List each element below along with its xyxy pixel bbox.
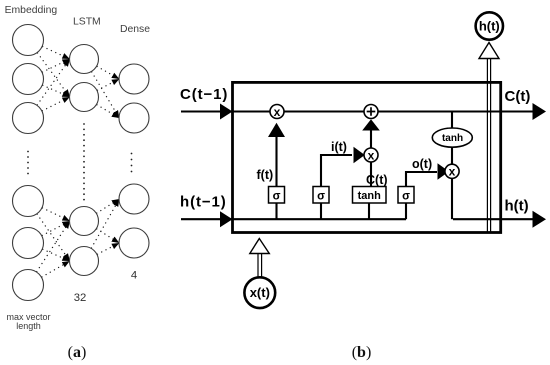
wire embedding1-lstm2: [38, 53, 70, 97]
svg-text:f(t): f(t): [257, 168, 274, 182]
arrowhead h(t-1) into box: [220, 211, 233, 227]
wire x(t) double line up: [258, 253, 262, 278]
column label Embedding: [5, 5, 58, 16]
open arrow to h(t) node: [479, 43, 499, 59]
node h(t) top: [476, 12, 503, 39]
wire embedding1-lstm1: [43, 47, 70, 59]
wire embedding2-lstm2: [43, 85, 70, 97]
svg-text:x(t): x(t): [250, 285, 270, 300]
neuron LSTM 1: [70, 45, 99, 74]
wire lstm4-dense4: [97, 243, 119, 254]
wire multiply2 up to add node: [370, 130, 372, 148]
label max vector length: [6, 312, 50, 331]
svg-text:tanh: tanh: [358, 190, 382, 202]
wire tanh box up to multiply2: [370, 162, 372, 186]
multiply node on C line (forget): [270, 105, 284, 119]
sigma box 1 (forget gate): [269, 187, 285, 204]
column label LSTM: [73, 17, 101, 28]
neuron LSTM 2: [70, 83, 99, 112]
label 4 (dense units): [131, 270, 137, 282]
node x(t) input: [244, 277, 275, 308]
svg-text:tanh: tanh: [442, 133, 463, 144]
svg-text:(b): (b): [352, 344, 372, 361]
wire embedding6-lstm4: [42, 261, 70, 277]
arrowhead C(t) output: [533, 103, 547, 120]
wire sigma1 up to multiply node: [275, 135, 277, 186]
svg-text:h(t): h(t): [505, 198, 529, 215]
wire sigma2 down to h line: [320, 203, 322, 219]
svg-text:Embedding: Embedding: [5, 5, 58, 16]
svg-text:C(t−1): C(t−1): [180, 86, 228, 103]
sigma box 3 (output gate): [398, 187, 414, 204]
neuron embedding 1: [13, 25, 44, 56]
wire embedding3-lstm1: [37, 59, 70, 105]
svg-text:x: x: [368, 148, 375, 162]
caption (b): [352, 344, 372, 361]
caption (a): [68, 344, 87, 361]
neuron embedding 2: [13, 64, 44, 95]
svg-text:Dense: Dense: [120, 24, 150, 35]
wire h(t-1) (hidden state line): [181, 218, 406, 220]
neuron dense 4: [119, 228, 149, 258]
wire lstm2-dense2: [97, 105, 119, 118]
ellipsis LSTM column (dotted line): [83, 123, 85, 200]
add node on C line: [364, 105, 378, 119]
svg-text:length: length: [16, 321, 41, 331]
wire embedding5-lstm4: [43, 249, 70, 261]
svg-text:4: 4: [131, 270, 137, 282]
wire embedding2-lstm1: [42, 59, 69, 72]
svg-text:σ: σ: [317, 191, 325, 203]
wire h(t) double line up: [487, 58, 490, 233]
svg-text:C(t): C(t): [505, 88, 531, 105]
svg-text:LSTM: LSTM: [73, 17, 101, 28]
wire lstm4-dense3: [91, 199, 119, 248]
wire lstm3-dense3: [97, 199, 120, 213]
wire embedding6-lstm3: [37, 221, 70, 272]
ellipsis dense column: [131, 153, 133, 173]
LSTM cell box: [233, 82, 501, 232]
label 32 (LSTM units): [74, 292, 87, 304]
ellipsis embedding column: [27, 151, 29, 175]
wire multiply3 down to h output line: [451, 178, 453, 219]
arrowhead into add node: [362, 119, 380, 130]
wire tanh box down to h line: [368, 203, 370, 219]
wire lstm1-dense1: [97, 66, 119, 79]
neuron dense 2: [119, 103, 149, 133]
wire tanh ellipse down to multiply3: [451, 147, 453, 164]
label i(t): [331, 140, 347, 154]
neuron embedding 4: [13, 186, 44, 217]
wire C line down to tanh ellipse: [451, 112, 453, 130]
wire h(t) output: [453, 218, 533, 220]
arrowhead into multiply node 2: [354, 147, 365, 163]
sigma box 2 (input gate): [313, 187, 329, 204]
wire lstm2-dense1: [97, 79, 119, 90]
neuron dense 3: [119, 184, 149, 214]
neuron embedding 3: [13, 103, 44, 134]
svg-text:(a): (a): [68, 344, 87, 361]
wire embedding4-lstm4: [37, 214, 70, 261]
wire sigma2 up and right to multiply node 2: [321, 155, 352, 186]
label C(t-1): [180, 86, 228, 103]
svg-text:σ: σ: [402, 191, 410, 203]
wire embedding3-lstm2: [42, 97, 70, 111]
arrowhead C(t-1) into box: [220, 104, 233, 120]
label f(t): [257, 168, 274, 182]
svg-text:h(t): h(t): [479, 19, 500, 34]
svg-text:i(t): i(t): [331, 140, 347, 154]
arrowhead into multiply3: [438, 163, 450, 179]
neuron LSTM 3: [70, 207, 99, 236]
label h(t) right: [505, 198, 529, 215]
svg-text:o(t): o(t): [412, 157, 432, 171]
neuron LSTM 4: [70, 247, 99, 276]
arrowhead h(t) output: [533, 211, 547, 228]
wire sigma1 down to h line: [275, 203, 277, 219]
wire lstm3-dense4: [97, 229, 120, 243]
svg-text:σ: σ: [273, 191, 281, 203]
label C(t) right: [505, 88, 531, 105]
column label Dense: [120, 24, 150, 35]
multiply node 3 (output): [445, 164, 459, 179]
svg-text:x: x: [274, 105, 281, 119]
tanh ellipse: [432, 128, 472, 147]
wire embedding4-lstm3: [42, 208, 69, 221]
svg-text:x: x: [449, 165, 456, 179]
multiply node 2: [364, 148, 378, 162]
wire C(t-1) to C(t) (cell state line): [181, 110, 533, 112]
wire sigma3 down to h line: [405, 203, 407, 219]
neuron embedding 6: [13, 270, 44, 301]
svg-text:C(t): C(t): [366, 173, 388, 187]
wire embedding5-lstm3: [42, 221, 70, 236]
arrowhead into multiply node f-gate: [268, 123, 285, 137]
label h(t-1): [180, 194, 227, 211]
svg-text:h(t−1): h(t−1): [180, 194, 227, 211]
label o(t): [412, 157, 432, 171]
neuron dense 1: [119, 64, 149, 94]
tanh box (candidate): [353, 187, 387, 204]
neuron embedding 5: [13, 228, 44, 259]
wire sigma3 up and right to multiply3: [406, 172, 437, 186]
open arrow from x(t) into box: [250, 239, 269, 254]
wire lstm1-dense2: [92, 72, 120, 118]
svg-text:32: 32: [74, 292, 87, 304]
label C(t) inner: [366, 173, 388, 187]
